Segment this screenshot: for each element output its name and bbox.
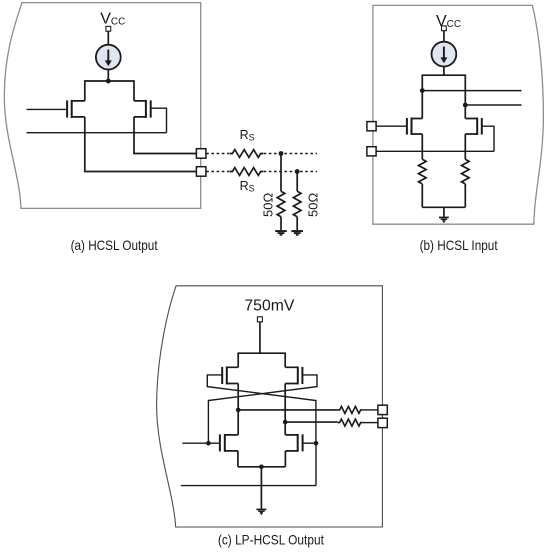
- terminal VCC (b): [442, 26, 447, 31]
- wire rail to ground (b): [443, 207, 445, 216]
- wire R1 to rail (b): [421, 184, 423, 207]
- svg-text:VCC: VCC: [100, 10, 125, 27]
- wire out1 (b): [422, 90, 521, 92]
- resistor R2 (b): [461, 159, 469, 184]
- resistor R1 (b): [418, 159, 426, 184]
- resistor R50-2 (50 ohm): [293, 191, 301, 216]
- svg-text:RS: RS: [240, 179, 255, 194]
- pad OUT+ (a): [196, 149, 206, 159]
- bottom rail (b): [422, 206, 465, 208]
- wire pad IN+ to Q3 gate: [376, 125, 407, 127]
- wire ROS2 to pad: [363, 422, 378, 424]
- dashed trace OUT+: [206, 153, 230, 155]
- wire current source to rail (b): [443, 67, 445, 76]
- svg-text:50Ω: 50Ω: [305, 193, 320, 217]
- bottom rail (c): [238, 466, 286, 468]
- wire to R50-1: [280, 154, 282, 192]
- block frame b (torn right edge): [373, 5, 544, 224]
- wire Q6 drain down: [284, 384, 286, 435]
- svg-text:50Ω: 50Ω: [261, 193, 276, 217]
- wire Q3 drain to R1: [421, 134, 423, 159]
- wire Q8 gate to right: [303, 442, 316, 444]
- ground G4: [256, 509, 266, 514]
- block frame c (torn left edge): [157, 286, 383, 527]
- wire Q2 gate to input 2: [151, 108, 167, 133]
- transistor Q4 (right): [465, 118, 482, 136]
- wire input 1 to Q1 gate: [27, 108, 68, 110]
- junction dot node OUT+ (c): [236, 408, 241, 413]
- transistor Q8 (lower right): [285, 434, 302, 452]
- wire Q6 gate cross to left: [208, 375, 317, 443]
- transistor Q1 (left): [67, 100, 85, 118]
- top rail (c): [238, 353, 285, 367]
- wire R50-1 to ground: [280, 217, 282, 230]
- terminal VCC (a): [106, 26, 111, 31]
- pad IN- (b): [367, 147, 376, 156]
- transistor Q2 (right): [134, 100, 151, 118]
- junction dot out1 (b): [420, 88, 425, 93]
- terminal 750mV: [257, 317, 262, 322]
- wire input 2 (c): [181, 485, 316, 487]
- wire input to Q7 gate: [182, 442, 220, 444]
- pad OUT+ (c): [378, 405, 387, 414]
- ground G2: [291, 231, 303, 235]
- wire out2 (b): [465, 104, 521, 106]
- wire Q8 gate node down: [315, 443, 317, 485]
- wire node to resistor ROS1: [238, 409, 338, 411]
- pad OUT- (c): [378, 418, 387, 427]
- wire ROS1 to pad: [363, 409, 378, 411]
- node tail rail (a): [85, 81, 134, 101]
- node tail rail (b): [422, 75, 465, 118]
- wire pad IN- to Q4 gate: [376, 150, 494, 152]
- svg-text:RS: RS: [240, 128, 255, 143]
- junction dot Q8 gate: [314, 441, 319, 446]
- wire current source to rail: [107, 70, 109, 82]
- dashed trace OUT+ right: [264, 153, 317, 155]
- wire input 2: [27, 132, 167, 134]
- svg-text:750mV: 750mV: [244, 298, 295, 315]
- junction dot node OUT- (c): [283, 420, 288, 425]
- wire terminal to top rail (c): [259, 322, 261, 353]
- resistor RS1: [230, 150, 263, 158]
- svg-text:(b) HCSL Input: (b) HCSL Input: [420, 237, 498, 253]
- wire tail to ground (c): [260, 467, 262, 509]
- current source I2: [432, 42, 457, 67]
- transistor Q7 (lower left): [220, 434, 238, 452]
- junction dot termination 1: [279, 151, 284, 156]
- transistor Q3 (left): [407, 118, 422, 136]
- resistor ROS1: [338, 406, 363, 413]
- dashed trace OUT- right: [264, 171, 317, 173]
- junction dot termination 2: [295, 169, 300, 174]
- wire Q1 drain to pad OUT-: [85, 117, 197, 172]
- dashed trace OUT-: [206, 171, 230, 173]
- wire node to resistor ROS2: [285, 421, 338, 423]
- resistor R50-1 (50 ohm): [277, 191, 285, 216]
- resistor ROS2: [338, 419, 363, 426]
- pad OUT- (a): [196, 167, 206, 177]
- wire Q7 source down: [237, 451, 239, 467]
- wire VCC to current source: [107, 31, 109, 45]
- wire Q4 drain to R2: [464, 134, 466, 159]
- junction dot out2 (b): [463, 103, 468, 108]
- svg-text:(c) LP-HCSL Output: (c) LP-HCSL Output: [218, 531, 324, 547]
- wire VCC to current source (b): [443, 31, 445, 42]
- wire Q5 drain down: [237, 384, 239, 435]
- svg-text:VCC: VCC: [436, 13, 461, 30]
- wire R50-2 to ground: [296, 217, 298, 230]
- wire Q5 gate cross to right: [207, 375, 316, 443]
- wire Q8 source down: [284, 451, 286, 467]
- svg-text:(a) HCSL Output: (a) HCSL Output: [71, 237, 158, 253]
- wire R2 to rail (b): [464, 184, 466, 207]
- transistor Q6 (upper right): [285, 366, 302, 384]
- wire to R50-2: [296, 172, 298, 192]
- transistor Q5 (upper left): [222, 366, 238, 384]
- pad IN+ (b): [367, 122, 376, 131]
- ground G3: [439, 217, 449, 222]
- junction dot tail (c): [259, 465, 264, 470]
- block frame a (torn left edge): [4, 3, 200, 209]
- wire Q2 drain to pad OUT+: [134, 117, 196, 154]
- ground G1: [275, 231, 287, 235]
- junction dot Q7 gate: [206, 441, 211, 446]
- wire Q4 gate loop: [482, 126, 494, 151]
- resistor RS2: [230, 168, 263, 176]
- current source I1: [96, 45, 121, 70]
- junction dot rail (a): [106, 79, 111, 84]
